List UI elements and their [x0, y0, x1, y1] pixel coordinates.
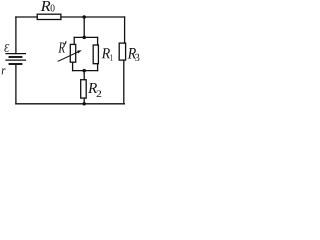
resistor R3 [119, 43, 125, 60]
resistor R1 [93, 45, 98, 64]
node dot: join junction [82, 69, 86, 73]
wire: parallel join horizontal [73, 70, 98, 72]
node dot: bottom rail junction [82, 102, 86, 106]
wire: stub down to R1 [97, 37, 99, 45]
label R' prime mark [65, 41, 67, 44]
wire: middle branch top drop [83, 17, 85, 37]
node dot: top rail junction [82, 15, 86, 19]
label EMF epsilon [4, 44, 9, 52]
label R3 letter R [128, 48, 136, 59]
wire: parallel split horizontal [74, 36, 97, 38]
wire: rheostat bottom stub [72, 62, 74, 70]
node dot: split junction [82, 36, 86, 40]
wire: bottom rail [16, 103, 125, 105]
label r (internal resistance) [2, 68, 6, 74]
wire: right vertical upper [124, 17, 126, 43]
rheostat arrow head [77, 50, 82, 53]
wire: top rail right segment [61, 16, 125, 18]
wire: right vertical lower [123, 60, 125, 104]
battery cell E,r : plate long 1 [6, 53, 26, 55]
wire: R2 to bottom rail [83, 98, 85, 104]
label R1 subscript 1 [110, 54, 112, 60]
label R2 subscript 2 [97, 90, 102, 96]
resistor R0 [37, 14, 61, 19]
wire: left vertical upper (to battery) [15, 17, 17, 54]
label R3 subscript 3 [135, 54, 139, 61]
rheostat arrow shaft [58, 52, 78, 61]
wire: drop to R2 [83, 71, 85, 80]
label R0 letter R [41, 1, 51, 11]
wire: R1 bottom stub [97, 64, 99, 71]
battery plate long 2 [6, 59, 26, 61]
label R1 letter R [102, 48, 110, 58]
wire: stub down to rheostat [73, 37, 75, 44]
wire: top rail left segment [16, 16, 37, 18]
battery plate short thick 1 [10, 56, 22, 58]
wire: left vertical lower (battery to bottom rail) [15, 64, 17, 104]
label R2 letter R [88, 83, 97, 93]
rheostat R' box [70, 44, 75, 62]
label R0 subscript 0 [51, 5, 55, 12]
label R' letter R [58, 43, 64, 53]
resistor R2 [81, 80, 87, 98]
battery plate short thick 2 [10, 63, 22, 65]
